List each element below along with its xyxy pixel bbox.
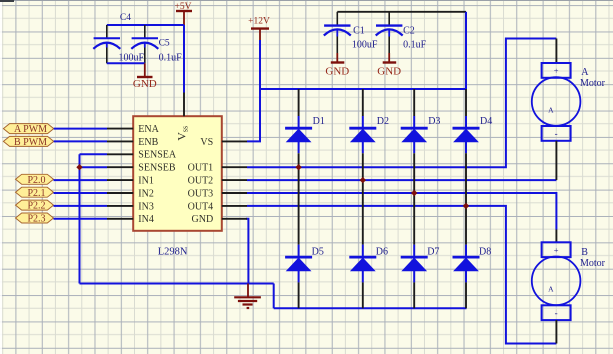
wire +12V vertical to VS [247, 40, 260, 141]
wire P2.0 to IN1 [54, 179, 108, 181]
diode D7 [401, 246, 440, 271]
port P2.2 [16, 200, 54, 212]
svg-text:100uF: 100uF [119, 53, 145, 64]
wire SENSE vertical [79, 154, 81, 283]
junction D3/OUT3 [411, 190, 417, 196]
wire A PWM to ENA [54, 128, 107, 130]
svg-text:A: A [581, 67, 589, 78]
wire column D2-D6 [362, 142, 364, 257]
diode D2 [349, 116, 389, 142]
U1 value label L298N [158, 246, 188, 257]
svg-text:0.1uF: 0.1uF [403, 40, 427, 51]
svg-text:D2: D2 [377, 116, 389, 127]
wire column D8 pin bottom [465, 271, 467, 308]
svg-text:IN3: IN3 [138, 201, 154, 212]
motor A terminal wire bottom [555, 141, 557, 180]
port P2.1 [16, 187, 54, 199]
wire column D3-D7 [413, 142, 415, 257]
svg-text:OUT4: OUT4 [188, 201, 214, 212]
motor A terminal wire top [555, 39, 557, 64]
motor A label [580, 67, 606, 89]
capacitor C2 [376, 12, 427, 53]
svg-text:GND: GND [377, 65, 401, 77]
wire column D4-D8 [465, 142, 467, 257]
svg-text:Motor: Motor [580, 78, 606, 89]
capacitor C5 [131, 25, 182, 64]
svg-text:D5: D5 [312, 246, 324, 257]
svg-text:+12V: +12V [248, 17, 270, 27]
svg-text:+: + [554, 245, 559, 255]
wire column D7 pin bottom [413, 271, 415, 308]
motor B terminal wire top [555, 230, 557, 243]
ground symbol [234, 284, 261, 309]
wire +5V top rail to C4/C5 [107, 24, 184, 26]
wire column D2 pin top [362, 89, 364, 128]
diode D8 [453, 246, 492, 271]
port P2.0 [16, 174, 54, 186]
sheet top border edge [0, 0, 613, 2]
capacitor C1 [324, 12, 378, 53]
svg-text:GND: GND [325, 65, 349, 77]
svg-text:D4: D4 [480, 116, 492, 127]
motor B terminal wire bottom [555, 320, 557, 343]
wire ground horizontal [80, 283, 274, 285]
wire bottom bus [274, 307, 467, 309]
junction D2/OUT2 [360, 177, 366, 183]
svg-text:OUT1: OUT1 [188, 163, 214, 174]
svg-text:VS: VS [200, 137, 213, 148]
svg-text:IN2: IN2 [138, 188, 154, 199]
svg-text:OUT2: OUT2 [188, 176, 214, 187]
U1 left pins [107, 129, 133, 219]
svg-text:C2: C2 [403, 26, 415, 37]
svg-text:L298N: L298N [158, 246, 188, 257]
diode D5 [285, 246, 324, 271]
power port +12V [248, 17, 270, 41]
port P2.3 [16, 213, 54, 225]
diode D4 [453, 116, 493, 142]
svg-text:C4: C4 [120, 13, 131, 23]
motor A [532, 63, 581, 141]
wire C4 to C5 bottom [107, 62, 145, 64]
svg-text:A: A [548, 105, 554, 114]
svg-text:D7: D7 [427, 246, 439, 257]
svg-text:Motor: Motor [580, 258, 606, 269]
svg-text:B PWM: B PWM [14, 137, 47, 148]
U1 right pins [222, 141, 247, 218]
wire P2.3 to IN4 [54, 218, 108, 220]
sheet left white edge [0, 2, 2, 354]
wire SENSEB [80, 166, 108, 168]
svg-text:A: A [548, 285, 554, 294]
svg-text:ENA: ENA [138, 124, 159, 135]
svg-text:SENSEB: SENSEB [138, 163, 176, 174]
wire B PWM to ENB [54, 140, 107, 142]
power port GND (C4/C5) [133, 63, 157, 90]
svg-text:P2.2: P2.2 [27, 201, 45, 212]
junction SENSEB [76, 164, 82, 170]
wire column D1 pin top [298, 89, 300, 128]
wire SENSEA [80, 153, 108, 155]
wire column D5 pin bottom [298, 271, 300, 308]
svg-text:GND: GND [192, 214, 214, 225]
wire +5V vertical to U1 Vss [183, 25, 185, 93]
diode D3 [401, 116, 441, 142]
capacitor C4 [93, 13, 144, 64]
power port +5V [175, 2, 192, 25]
svg-text:C1: C1 [353, 26, 365, 37]
svg-text:B: B [581, 247, 588, 258]
wire P2.2 to IN3 [54, 205, 108, 207]
U1 Vss pin [183, 93, 185, 117]
svg-text:D3: D3 [428, 116, 440, 127]
junction D1/OUT1 [295, 164, 301, 170]
wire column D1-D5 [298, 142, 300, 257]
svg-text:ENB: ENB [138, 137, 158, 148]
svg-text:D6: D6 [376, 246, 388, 257]
svg-text:-: - [555, 129, 558, 139]
wire column D4 pin top [465, 89, 467, 128]
svg-text:A PWM: A PWM [14, 124, 47, 135]
svg-text:-: - [555, 308, 558, 318]
wire top rail drop to bus [465, 12, 467, 89]
svg-text:100uF: 100uF [352, 40, 378, 51]
wire OUT3 to B motor plus [247, 193, 556, 230]
svg-text:SENSEA: SENSEA [138, 150, 177, 161]
op IC U1 L298N body [133, 116, 222, 231]
svg-text:+: + [554, 66, 559, 76]
wire U1 GND pin to ground [246, 219, 248, 284]
svg-text:0.1uF: 0.1uF [159, 53, 183, 64]
svg-text:IN1: IN1 [138, 176, 154, 187]
motor B [532, 242, 581, 320]
power port GND (C1) [325, 53, 349, 77]
wire +12V bus horizontal [260, 88, 466, 90]
diode D1 [285, 116, 325, 142]
svg-text:C5: C5 [159, 39, 170, 49]
wire column D3 pin top [413, 89, 415, 128]
svg-text:IN4: IN4 [138, 214, 154, 225]
wire OUT2 to A motor minus [247, 179, 556, 181]
wire top rail black C1-C2 to D4 column [337, 11, 466, 13]
port A PWM [3, 124, 53, 136]
power port GND (C2) [377, 53, 401, 77]
junction D4/OUT4 [463, 203, 469, 209]
U1 pin names [138, 124, 213, 225]
diode D6 [349, 246, 388, 271]
port B PWM [3, 136, 53, 148]
wire ground to bottom bus drop [273, 284, 275, 309]
svg-text:P2.0: P2.0 [27, 175, 45, 186]
wire OUT1 to A motor plus [247, 39, 556, 168]
svg-text:D1: D1 [313, 116, 325, 127]
svg-text:P2.1: P2.1 [27, 188, 45, 199]
motor B label [580, 247, 606, 269]
wire OUT4 to B motor minus [247, 206, 556, 344]
wire P2.1 to IN2 [54, 192, 108, 194]
svg-text:GND: GND [133, 78, 157, 90]
svg-text:P2.3: P2.3 [27, 214, 45, 225]
wire column D6 pin bottom [362, 271, 364, 308]
svg-text:D8: D8 [479, 246, 491, 257]
svg-text:OUT3: OUT3 [188, 188, 214, 199]
